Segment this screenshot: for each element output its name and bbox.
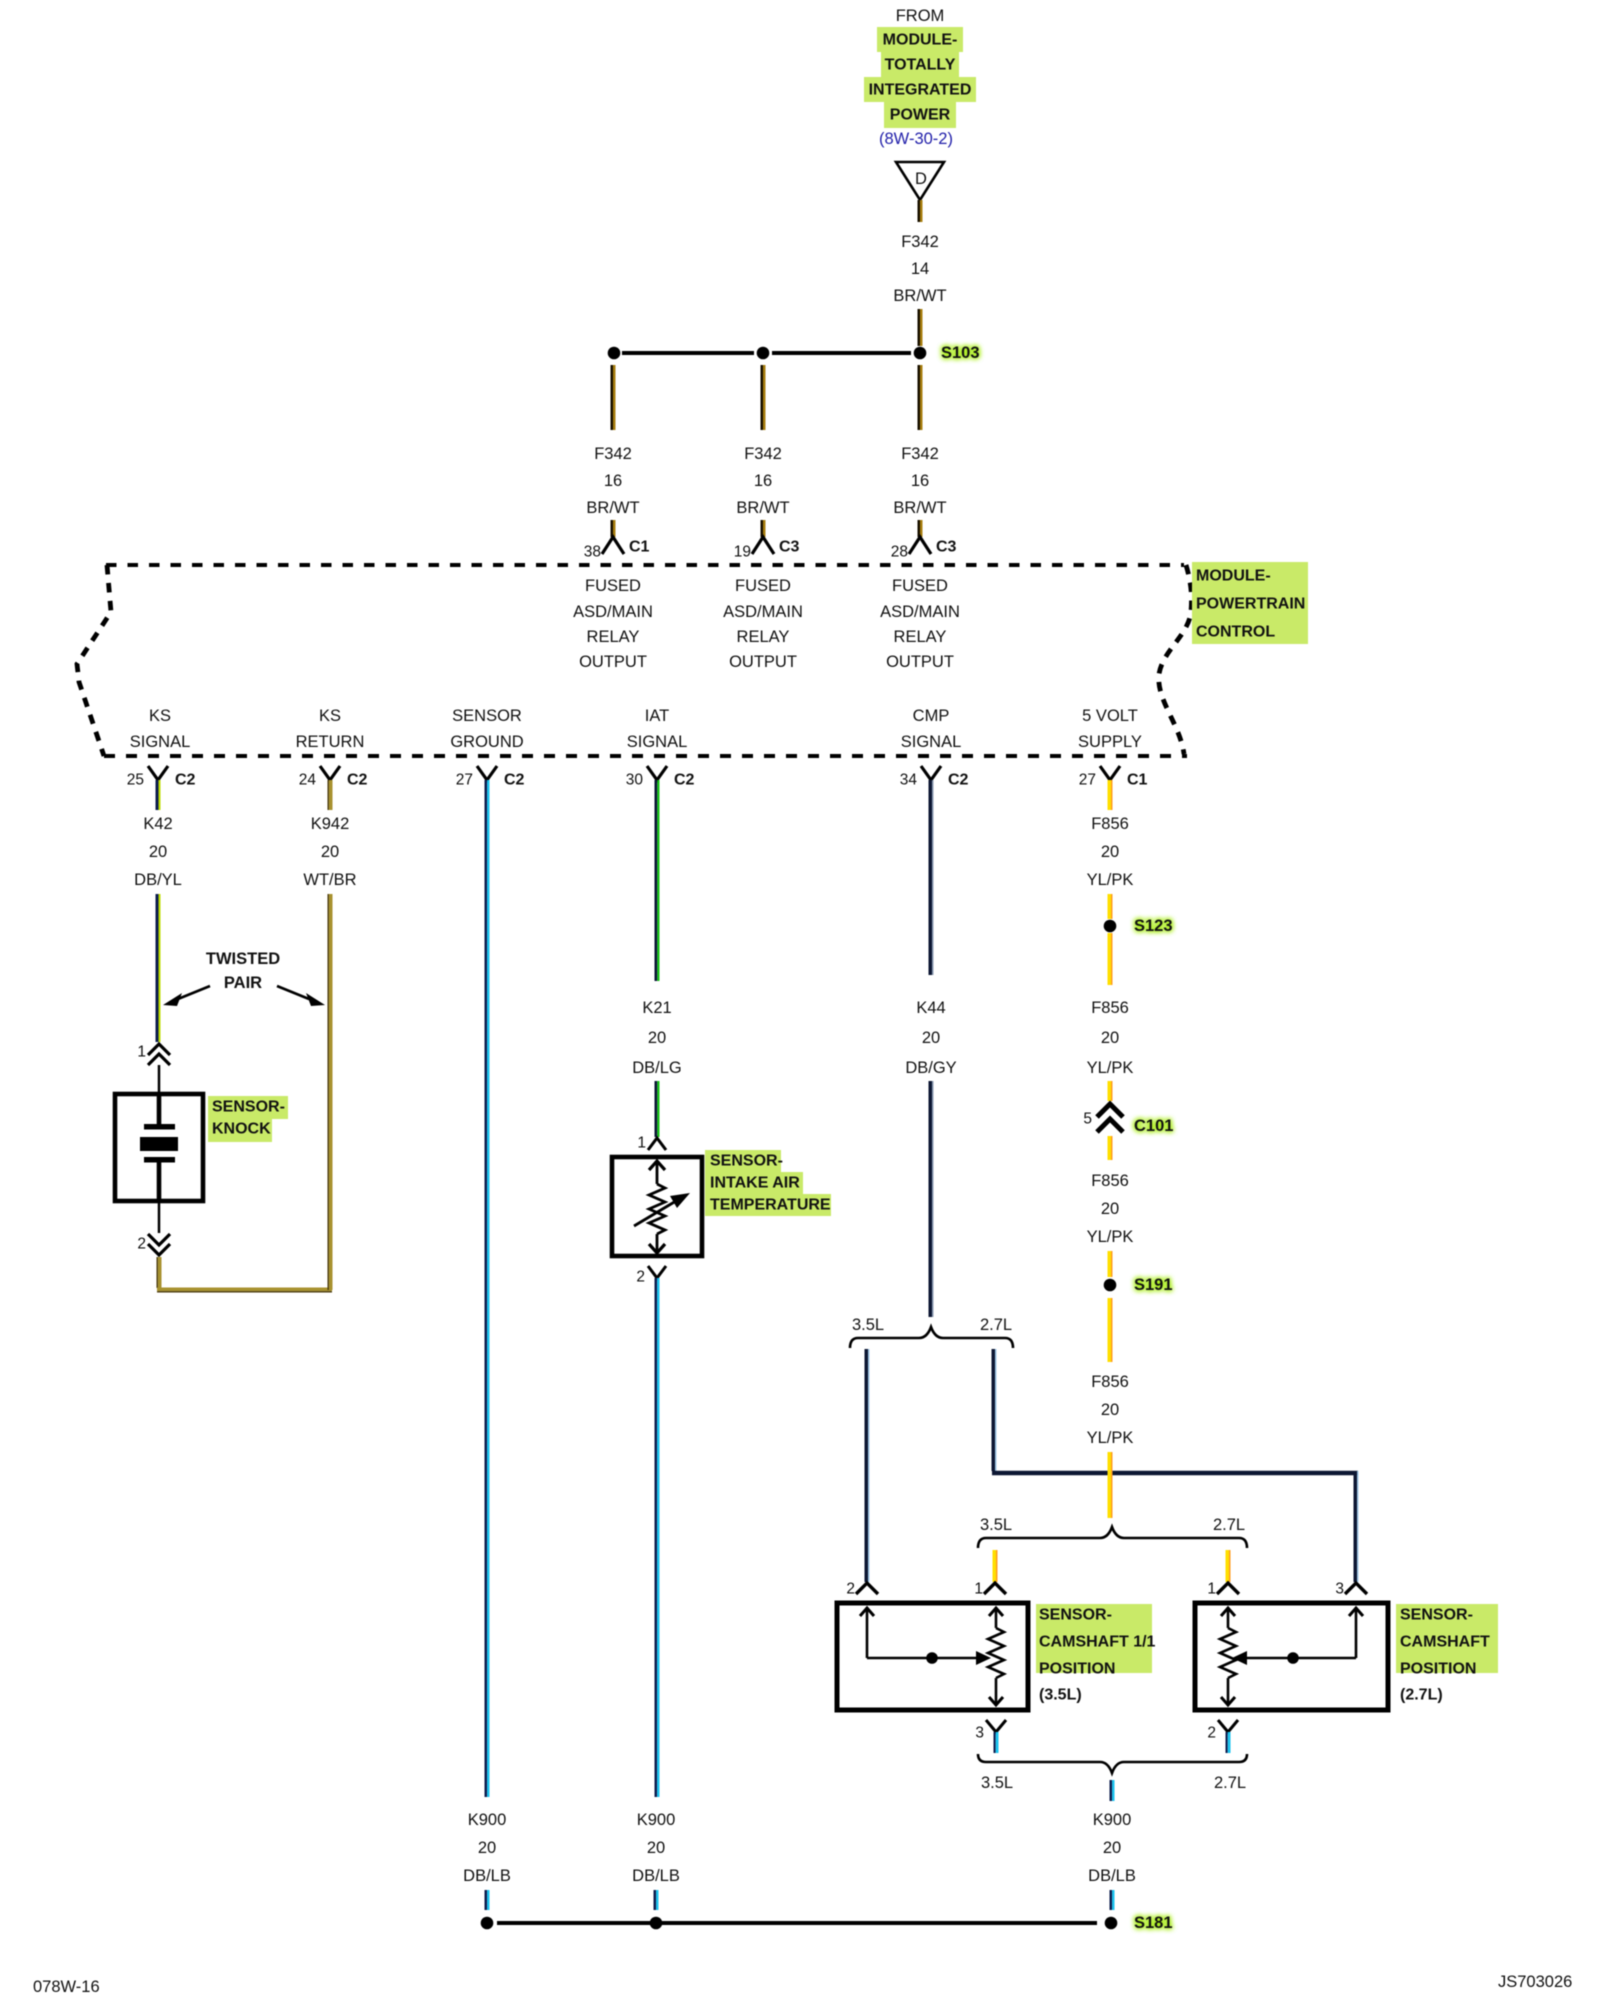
value label F856 20 YL/PK (3) (1087, 1172, 1134, 1246)
twisted pair annotation (163, 950, 325, 1006)
svg-text:BR/WT: BR/WT (736, 499, 789, 517)
wire F856 down to engine split (1109, 1452, 1112, 1518)
svg-text:SENSOR-: SENSOR- (710, 1153, 783, 1170)
svg-text:2: 2 (846, 1581, 855, 1598)
PCM pin 34 C2 connector symbol (900, 766, 969, 789)
svg-text:1: 1 (1207, 1581, 1216, 1598)
wire F342 16 BR/WT (right branch) (919, 365, 922, 430)
svg-text:JS703026: JS703026 (1498, 1973, 1572, 1991)
wire K900 DB/LB from IAT pin 2 (656, 1278, 659, 1797)
svg-text:28: 28 (891, 544, 908, 561)
PCM dashed outline left edge (77, 565, 111, 756)
wire F342 14 BR/WT from connector D (919, 200, 922, 222)
wire F342 16 BR/WT (left branch) (612, 365, 615, 430)
svg-text:27: 27 (1079, 772, 1096, 789)
svg-text:BR/WT: BR/WT (586, 499, 639, 517)
svg-text:3: 3 (1335, 1581, 1344, 1598)
cam sensor 2.7L pin 3 connector (1335, 1581, 1367, 1598)
svg-text:20: 20 (1103, 1839, 1121, 1857)
svg-text:CONTROL: CONTROL (1196, 624, 1275, 641)
svg-text:14: 14 (911, 260, 929, 278)
svg-text:K900: K900 (1093, 1811, 1132, 1829)
svg-text:34: 34 (900, 772, 918, 789)
svg-text:SIGNAL: SIGNAL (627, 733, 688, 751)
PCM pin 19 C3 connector symbol (734, 537, 800, 561)
svg-text:ASD/MAIN: ASD/MAIN (880, 603, 960, 621)
wire K44 down to engine split (930, 1081, 933, 1317)
PCM pin 24 C2 connector symbol (299, 766, 368, 789)
sensor-camshaft position (2.7L) box (1195, 1603, 1388, 1710)
value label F856 20 YL/PK (4) (1087, 1373, 1134, 1447)
svg-text:S103: S103 (941, 344, 980, 362)
svg-text:RELAY: RELAY (894, 628, 947, 646)
svg-text:K900: K900 (637, 1811, 676, 1829)
wire K42 20 DB/YL down to knock sensor (157, 894, 160, 1042)
svg-text:F856: F856 (1091, 815, 1129, 833)
wire F856 20 YL/PK stub below pin 27 (1109, 780, 1112, 810)
svg-text:FUSED: FUSED (892, 577, 948, 595)
svg-text:S123: S123 (1134, 917, 1173, 935)
pin function label SENSOR GROUND (450, 707, 523, 751)
svg-text:RETURN: RETURN (296, 733, 365, 751)
svg-text:FUSED: FUSED (735, 577, 791, 595)
svg-text:C2: C2 (347, 772, 368, 789)
knock sensor piezo element (140, 1096, 178, 1199)
svg-text:20: 20 (1101, 1200, 1119, 1218)
svg-text:16: 16 (754, 472, 772, 490)
svg-text:ASD/MAIN: ASD/MAIN (723, 603, 803, 621)
svg-text:FROM: FROM (896, 7, 945, 25)
cam sensor 3.5L pin 3 connector (975, 1720, 1006, 1742)
svg-text:K21: K21 (642, 999, 671, 1017)
wire stub into pin 38 (612, 520, 615, 537)
splice S103 (914, 344, 980, 362)
svg-text:1: 1 (137, 1044, 146, 1061)
PCM pin 27 C1 connector symbol (1079, 766, 1148, 789)
svg-text:SIGNAL: SIGNAL (901, 733, 962, 751)
svg-text:2: 2 (137, 1236, 146, 1253)
svg-text:DB/LB: DB/LB (463, 1867, 511, 1885)
wire cam 2.7L output (1227, 1732, 1230, 1753)
wire K42 20 DB/YL stub below pin 25 (157, 780, 160, 810)
svg-text:F342: F342 (901, 233, 939, 251)
label SENSOR-INTAKE AIR TEMPERATURE (705, 1150, 831, 1216)
PCM dashed outline right edge (1159, 565, 1192, 754)
svg-text:YL/PK: YL/PK (1087, 1429, 1134, 1447)
PCM pin 30 C2 connector symbol (626, 766, 695, 789)
PCM pin 38 C1 connector symbol (584, 537, 650, 561)
cam sensor 2.7L internal circuit (1220, 1608, 1363, 1705)
svg-text:C1: C1 (629, 539, 650, 556)
in-line connector C101 pin 5 (1083, 1104, 1173, 1135)
wire F342 16 BR/WT (mid branch) (762, 365, 765, 430)
wire stub into splice bus (IAT return) (655, 1890, 658, 1910)
wire K900 below merge brace (1111, 1780, 1114, 1801)
svg-text:RELAY: RELAY (737, 628, 790, 646)
splice S191 (1104, 1276, 1173, 1294)
svg-text:16: 16 (911, 472, 929, 490)
svg-text:20: 20 (647, 1839, 665, 1857)
svg-text:SIGNAL: SIGNAL (130, 733, 191, 751)
junction dot sensor ground (481, 1917, 494, 1930)
svg-text:POSITION: POSITION (1400, 1661, 1476, 1678)
value label K900 20 DB/LB (IAT return) (632, 1811, 680, 1885)
svg-text:SENSOR-: SENSOR- (1400, 1607, 1473, 1624)
engine merge brace 3.5L / 2.7L (cam returns) (978, 1754, 1247, 1792)
pin function label 5 VOLT SUPPLY (1078, 707, 1142, 751)
wire F856 into connector C101 (1109, 1081, 1112, 1101)
svg-text:24: 24 (299, 772, 317, 789)
wire stub into splice S181 (1111, 1890, 1114, 1910)
cam sensor 3.5L internal circuit (860, 1608, 1004, 1705)
value label K900 20 DB/LB (sensor ground) (463, 1811, 511, 1885)
wire K44 20 DB/GY from pin 34 (930, 780, 933, 975)
wire into knock sensor pin 1 (158, 1065, 161, 1096)
svg-text:3.5L: 3.5L (852, 1316, 884, 1334)
svg-text:20: 20 (149, 843, 167, 861)
wire CMP signal 2.7L branch with elbow (992, 1349, 1358, 1582)
svg-text:KNOCK: KNOCK (212, 1121, 271, 1138)
sensor-camshaft 1/1 position (3.5L) box (837, 1603, 1028, 1710)
svg-text:K900: K900 (468, 1811, 507, 1829)
svg-text:(3.5L): (3.5L) (1039, 1687, 1082, 1704)
value label K942 20 WT/BR (303, 815, 356, 889)
svg-text:BR/WT: BR/WT (893, 287, 946, 305)
svg-text:25: 25 (127, 772, 144, 789)
svg-text:20: 20 (478, 1839, 496, 1857)
svg-text:C2: C2 (948, 772, 969, 789)
svg-text:5: 5 (1083, 1111, 1092, 1128)
pin function label CMP SIGNAL (901, 707, 962, 751)
svg-text:S181: S181 (1134, 1914, 1173, 1932)
svg-text:C2: C2 (674, 772, 695, 789)
svg-text:3: 3 (975, 1725, 984, 1742)
svg-text:DB/YL: DB/YL (134, 871, 182, 889)
svg-text:(2.7L): (2.7L) (1400, 1687, 1443, 1704)
svg-text:TEMPERATURE: TEMPERATURE (710, 1197, 831, 1214)
svg-text:19: 19 (734, 544, 751, 561)
svg-text:RELAY: RELAY (587, 628, 640, 646)
IAT sensor pin 2 connector symbol (636, 1266, 666, 1286)
svg-text:F342: F342 (901, 445, 939, 463)
value label F342 16 BR/WT (mid) (736, 445, 789, 517)
knock sensor pin 1 in-line connector (137, 1044, 170, 1066)
wire F856 below S191 (1109, 1298, 1112, 1362)
svg-text:F856: F856 (1091, 1172, 1129, 1190)
sheet number 078W-16 (33, 1978, 100, 1996)
svg-text:K42: K42 (143, 815, 172, 833)
svg-text:KS: KS (149, 707, 171, 725)
svg-text:WT/BR: WT/BR (303, 871, 356, 889)
wire out of knock sensor pin 2 (158, 1201, 161, 1233)
svg-text:20: 20 (1101, 843, 1119, 861)
svg-text:2.7L: 2.7L (1213, 1516, 1245, 1534)
svg-text:ASD/MAIN: ASD/MAIN (573, 603, 653, 621)
pin function label FUSED ASD/MAIN RELAY OUTPUT (mid) (723, 577, 803, 671)
svg-text:38: 38 (584, 544, 601, 561)
wire KS return bottom elbow (157, 1289, 332, 1292)
svg-text:DB/GY: DB/GY (905, 1059, 956, 1077)
svg-text:IAT: IAT (645, 707, 669, 725)
svg-text:3.5L: 3.5L (981, 1774, 1013, 1792)
wire CMP signal 3.5L branch (866, 1349, 869, 1582)
svg-text:(8W-30-2): (8W-30-2) (879, 130, 953, 148)
pin function label IAT SIGNAL (627, 707, 688, 751)
svg-text:2: 2 (1207, 1725, 1216, 1742)
svg-text:2: 2 (636, 1269, 645, 1286)
svg-text:C3: C3 (936, 539, 957, 556)
sensor-intake air temperature box (612, 1157, 702, 1256)
svg-text:CAMSHAFT 1/1: CAMSHAFT 1/1 (1039, 1634, 1156, 1651)
label SENSOR-CAMSHAFT POSITION (2.7L) (1396, 1604, 1498, 1704)
svg-text:20: 20 (1101, 1029, 1119, 1047)
value label F342 16 BR/WT (left) (586, 445, 639, 517)
svg-text:TOTALLY: TOTALLY (885, 57, 956, 74)
svg-text:30: 30 (626, 772, 644, 789)
svg-text:K44: K44 (916, 999, 945, 1017)
engine split brace 3.5L / 2.7L (CMP signal) (850, 1316, 1013, 1348)
svg-text:16: 16 (604, 472, 622, 490)
value label F342 14 BR/WT (893, 233, 946, 305)
svg-text:3.5L: 3.5L (980, 1516, 1012, 1534)
svg-text:S191: S191 (1134, 1276, 1173, 1294)
wire K942 20 WT/BR stub below pin 24 (328, 780, 331, 810)
svg-text:F342: F342 (594, 445, 632, 463)
svg-text:PAIR: PAIR (224, 974, 262, 992)
PCM pin 25 C2 connector symbol (127, 766, 196, 789)
wire stub into pin 28 (919, 520, 922, 537)
pin function label FUSED ASD/MAIN RELAY OUTPUT (left) (573, 577, 653, 671)
splice S181 (1105, 1914, 1173, 1932)
svg-text:20: 20 (922, 1029, 940, 1047)
svg-text:OUTPUT: OUTPUT (579, 653, 647, 671)
svg-text:CAMSHAFT: CAMSHAFT (1400, 1634, 1490, 1651)
value label F856 20 YL/PK (2) (1087, 999, 1134, 1077)
svg-text:FUSED: FUSED (585, 577, 641, 595)
svg-text:DB/LB: DB/LB (632, 1867, 680, 1885)
splice S123 (1104, 917, 1173, 935)
svg-text:2.7L: 2.7L (980, 1316, 1012, 1334)
svg-text:078W-16: 078W-16 (33, 1978, 100, 1996)
wire F856 into splice S123 (1109, 894, 1112, 919)
junction dot middle branch (757, 347, 770, 360)
label SENSOR-CAMSHAFT 1/1 POSITION (3.5L) (1036, 1604, 1156, 1704)
svg-text:C101: C101 (1134, 1117, 1173, 1135)
svg-text:DB/LB: DB/LB (1088, 1867, 1136, 1885)
wire cam 3.5L output (995, 1732, 998, 1753)
junction dot IAT return (650, 1917, 663, 1930)
cam sensor 3.5L pin 1 connector (974, 1581, 1006, 1598)
svg-text:C3: C3 (779, 539, 800, 556)
svg-text:27: 27 (456, 772, 473, 789)
svg-text:OUTPUT: OUTPUT (729, 653, 797, 671)
IAT sensor pin 1 connector symbol (637, 1135, 666, 1152)
wire KS return from knock sensor pin 2 (157, 1257, 160, 1288)
cam sensor 3.5L pin 2 connector (846, 1581, 878, 1598)
svg-text:YL/PK: YL/PK (1087, 871, 1134, 889)
wire stub into pin 19 (762, 520, 765, 537)
IAT thermistor symbol (634, 1161, 690, 1253)
svg-text:1: 1 (637, 1135, 646, 1152)
cam sensor 2.7L pin 2 connector (1207, 1720, 1238, 1742)
PCM pin 28 C3 connector symbol (891, 537, 957, 561)
sensor ground wire DB/LB from pin 27 (486, 780, 489, 1797)
svg-text:20: 20 (321, 843, 339, 861)
node FROM MODULE-TOTALLY INTEGRATED POWER (8W-30-2) (864, 7, 976, 148)
svg-text:POWER: POWER (890, 107, 951, 124)
pin function label FUSED ASD/MAIN RELAY OUTPUT (right) (880, 577, 960, 671)
svg-text:YL/PK: YL/PK (1087, 1228, 1134, 1246)
svg-text:1: 1 (974, 1581, 983, 1598)
wire K942 20 WT/BR down to elbow (328, 894, 331, 1290)
svg-text:BR/WT: BR/WT (893, 499, 946, 517)
svg-text:POWERTRAIN: POWERTRAIN (1196, 596, 1305, 613)
svg-text:MODULE-: MODULE- (883, 32, 958, 49)
wire 5V supply 2.7L branch (1227, 1550, 1230, 1582)
value label F342 16 BR/WT (right) (893, 445, 946, 517)
wire 5V supply 3.5L branch (994, 1550, 997, 1582)
wire stub into splice bus (486, 1890, 489, 1910)
value label K44 20 DB/GY (905, 999, 956, 1077)
svg-text:SENSOR-: SENSOR- (212, 1099, 285, 1116)
knock sensor pin 2 in-line connector (137, 1234, 170, 1255)
wire F856 into splice S191 (1109, 1251, 1112, 1277)
label SENSOR-KNOCK (208, 1096, 288, 1142)
wire F856 below S123 (1109, 933, 1112, 985)
label MODULE-POWERTRAIN CONTROL (1192, 562, 1308, 644)
svg-text:C1: C1 (1127, 772, 1148, 789)
sensor-knock component box (115, 1094, 203, 1201)
value label K21 20 DB/LG (632, 999, 682, 1077)
splice bus wire at S103 (622, 351, 911, 355)
svg-text:TWISTED: TWISTED (206, 950, 280, 968)
svg-text:SENSOR: SENSOR (452, 707, 522, 725)
svg-text:20: 20 (648, 1029, 666, 1047)
svg-text:MODULE-: MODULE- (1196, 568, 1271, 585)
off-page connector D (triangle) (896, 162, 944, 200)
svg-text:K942: K942 (311, 815, 350, 833)
svg-text:POSITION: POSITION (1039, 1661, 1115, 1678)
wire F856 below C101 (1109, 1136, 1112, 1160)
svg-text:20: 20 (1101, 1401, 1119, 1419)
svg-text:F856: F856 (1091, 1373, 1129, 1391)
svg-text:F856: F856 (1091, 999, 1129, 1017)
value label F856 20 YL/PK (1) (1087, 815, 1134, 889)
drawing number JS703026 (1498, 1973, 1572, 1991)
cam sensor 2.7L pin 1 connector (1207, 1581, 1239, 1598)
svg-text:INTEGRATED: INTEGRATED (869, 82, 972, 99)
wire K21 into IAT sensor (656, 1081, 659, 1137)
svg-text:OUTPUT: OUTPUT (886, 653, 954, 671)
value label K42 20 DB/YL (134, 815, 182, 889)
svg-text:5 VOLT: 5 VOLT (1082, 707, 1138, 725)
svg-text:SUPPLY: SUPPLY (1078, 733, 1142, 751)
wire K21 20 DB/LG from pin 30 (656, 780, 659, 981)
ground splice bus wire (497, 1921, 1097, 1925)
svg-text:F342: F342 (744, 445, 782, 463)
svg-text:D: D (915, 170, 927, 188)
PCM pin 27 C2 connector symbol (456, 766, 525, 789)
pin function label KS RETURN (296, 707, 365, 751)
svg-text:GROUND: GROUND (450, 733, 523, 751)
svg-text:CMP: CMP (913, 707, 950, 725)
svg-text:YL/PK: YL/PK (1087, 1059, 1134, 1077)
svg-text:INTAKE AIR: INTAKE AIR (710, 1175, 800, 1192)
svg-text:2.7L: 2.7L (1214, 1774, 1246, 1792)
engine split brace 3.5L / 2.7L (5 volt supply) (978, 1516, 1247, 1548)
wire F342 into splice S103 (919, 309, 922, 346)
pin function label KS SIGNAL (130, 707, 191, 751)
svg-text:C2: C2 (175, 772, 196, 789)
PCM dashed outline bottom (104, 754, 1187, 758)
junction dot left branch (608, 347, 621, 360)
svg-text:DB/LG: DB/LG (632, 1059, 682, 1077)
value label K900 20 DB/LB (cam return) (1088, 1811, 1136, 1885)
svg-text:KS: KS (319, 707, 341, 725)
svg-text:SENSOR-: SENSOR- (1039, 1607, 1112, 1624)
svg-text:C2: C2 (504, 772, 525, 789)
module-powertrain control (PCM) dashed outline top (106, 563, 1184, 567)
